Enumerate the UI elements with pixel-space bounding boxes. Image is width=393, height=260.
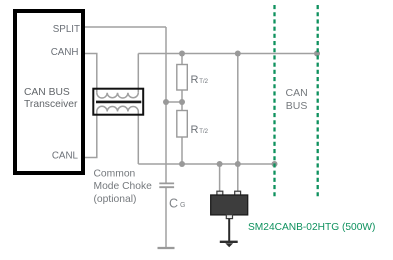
node CAN BUS line 1 (green dashed) xyxy=(273,5,275,197)
svg-text:CANL: CANL xyxy=(52,150,79,161)
wire CANH from choke to bus xyxy=(138,54,317,93)
resistor R T/2 lower xyxy=(177,111,188,138)
svg-text:SPLIT: SPLIT xyxy=(53,24,80,35)
wire resistor chain bottom xyxy=(181,137,183,164)
junction dot resistor midpoint xyxy=(179,99,185,105)
TVS diode D1 pin top-left xyxy=(217,191,223,195)
svg-text:CAN: CAN xyxy=(286,87,308,99)
junction dot CANL-TVS left xyxy=(217,161,223,167)
TVS diode D1 body xyxy=(211,195,248,215)
wire split to resistor midpoint xyxy=(166,101,182,103)
wire resistor chain top xyxy=(181,54,183,65)
junction dot CANL-TVS right xyxy=(235,161,241,167)
svg-text:C: C xyxy=(169,197,178,211)
svg-text:R: R xyxy=(191,74,199,86)
svg-text:(optional): (optional) xyxy=(94,194,137,205)
svg-text:Mode Choke: Mode Choke xyxy=(94,181,153,192)
TVS diode D1 pin top-right xyxy=(235,191,241,195)
choke winding bottom xyxy=(97,106,139,111)
choke winding top xyxy=(97,93,139,98)
junction dot CANH-R xyxy=(179,51,185,57)
common mode choke L1 box xyxy=(93,89,143,115)
wire TVS lead right to CANH xyxy=(237,54,239,192)
wire CANL from choke to bus xyxy=(138,112,274,165)
svg-text:T/2: T/2 xyxy=(199,129,208,135)
junction dot CANL bus end xyxy=(272,161,278,167)
wire SPLIT horizontal xyxy=(85,26,166,28)
svg-text:Common: Common xyxy=(94,168,136,179)
wire resistor chain middle xyxy=(181,90,183,111)
ground for CG xyxy=(158,247,175,249)
svg-text:T/2: T/2 xyxy=(199,79,208,85)
junction dot CANH-TVS xyxy=(235,51,241,57)
svg-text:CANH: CANH xyxy=(51,47,79,58)
wire CANL stub from transceiver xyxy=(85,112,97,158)
resistor R T/2 upper xyxy=(177,65,188,91)
svg-text:CAN BUS: CAN BUS xyxy=(24,87,70,98)
choke core bar xyxy=(96,101,141,104)
junction dot CANL-R xyxy=(179,161,185,167)
svg-text:G: G xyxy=(180,202,185,209)
svg-text:SM24CANB-02HTG (500W): SM24CANB-02HTG (500W) xyxy=(248,222,375,233)
ground for TVS xyxy=(220,241,238,243)
wire SPLIT vertical to CG xyxy=(165,27,167,183)
node CAN BUS line 2 (green dashed) xyxy=(317,5,319,197)
wire TVS to ground xyxy=(228,219,230,241)
svg-text:BUS: BUS xyxy=(286,100,308,112)
TVS diode D1 pin bottom xyxy=(226,215,232,219)
svg-text:R: R xyxy=(191,124,199,136)
wire TVS lead left xyxy=(219,164,221,191)
svg-text:Transceiver: Transceiver xyxy=(24,99,78,110)
junction dot split line midpoint xyxy=(163,99,169,105)
transceiver box U1 xyxy=(15,11,83,173)
capacitor CG plates xyxy=(159,183,174,187)
wire CG to ground xyxy=(165,187,167,247)
wire CANH stub from transceiver xyxy=(85,54,97,93)
junction dot CANH bus end xyxy=(314,51,320,57)
